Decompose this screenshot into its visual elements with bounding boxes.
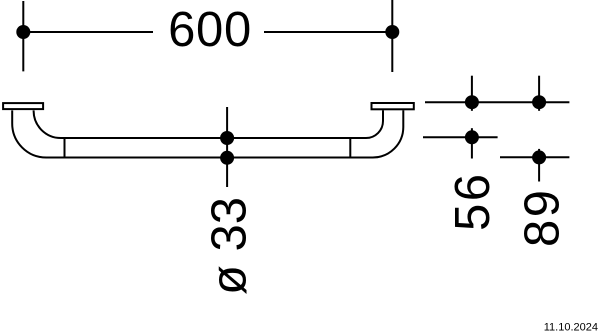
svg-text:600: 600 — [168, 3, 252, 57]
tick through dot on line 2 — [471, 128, 473, 158]
dimension line 2 (tube top level) — [423, 136, 498, 138]
dot ø33 bottom — [220, 151, 234, 165]
weld joint line right — [349, 138, 351, 158]
dot 89 on line 1 — [532, 95, 546, 109]
left wall flange — [3, 103, 43, 109]
dot 89 on line 3 — [532, 150, 546, 164]
dimension line 600 right segment — [264, 31, 392, 33]
extension line right of 600 dimension — [391, 0, 393, 72]
dimension line 3 (tube bottom level) — [500, 156, 569, 158]
grab bar tube inner edge — [34, 110, 383, 138]
dot 56 on line 1 — [465, 95, 479, 109]
dot left end of 600 dimension — [16, 25, 30, 39]
dot 56 on line 2 — [465, 130, 479, 144]
dimension line 1 (flange level) — [425, 101, 569, 103]
weld joint line left — [64, 138, 66, 158]
diameter dimension line ø33 — [226, 107, 228, 187]
tick through dot on line 3 — [538, 149, 540, 182]
tick through 89 dot on line 1 — [538, 76, 540, 111]
svg-text:56: 56 — [446, 171, 500, 231]
dimension line 600 left segment — [23, 31, 153, 33]
dot right end of 600 dimension — [385, 25, 399, 39]
right wall flange — [372, 103, 414, 109]
grab bar tube outer edge — [12, 110, 403, 157]
dot ø33 top — [220, 131, 234, 145]
svg-text:ø 33: ø 33 — [202, 197, 256, 295]
svg-text:89: 89 — [516, 187, 570, 247]
tick through 56 dot on line 1 — [471, 76, 473, 111]
svg-text:11.10.2024: 11.10.2024 — [544, 321, 598, 333]
extension line left of 600 dimension — [22, 1, 24, 71]
